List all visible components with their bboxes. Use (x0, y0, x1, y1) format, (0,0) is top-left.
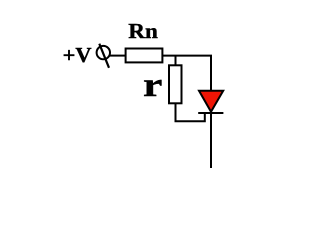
svg-text:Rn: Rn (128, 19, 158, 43)
svg-text:r: r (143, 67, 162, 104)
svg-text:+V: +V (63, 43, 93, 67)
